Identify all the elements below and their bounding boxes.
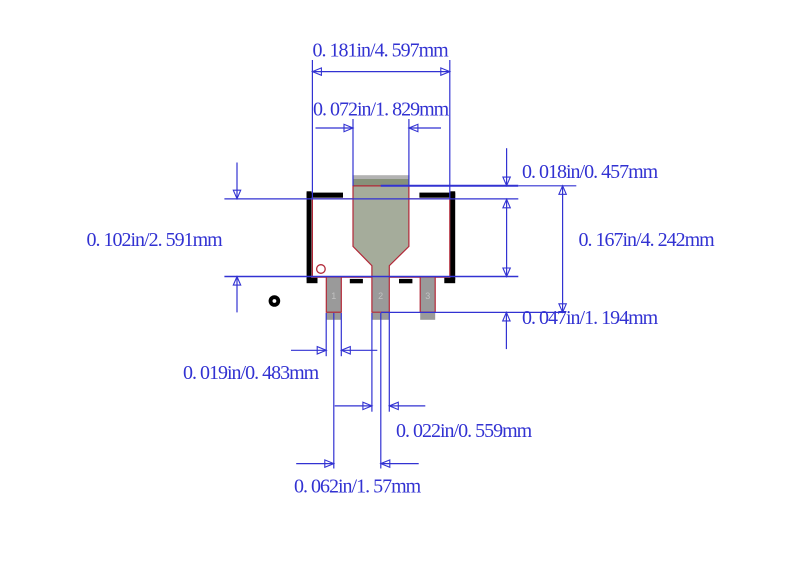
body bottom reference line: [224, 276, 518, 278]
package body outline: [312, 199, 449, 277]
silkscreen bottom dash 2: [399, 279, 412, 283]
dimension 0.018in: upper arrow stem: [503, 148, 510, 185]
dimension 0.167in stem with arrows: [559, 186, 566, 312]
silkscreen left vertical: [307, 191, 312, 279]
dimension 0.181in line with arrows: [312, 68, 449, 75]
tab top reference line: [381, 185, 577, 187]
pin 2 width extension lines: [372, 313, 389, 412]
dimension 0.181in text: [313, 40, 450, 62]
dimension 0.072in text: [313, 98, 450, 120]
tab / pin 2 red outline: [353, 186, 409, 312]
dimension 0.019in arrows: [291, 347, 377, 354]
pin 1 center extension line: [333, 313, 335, 469]
dimension 0.102in: lower arrow stem: [233, 277, 240, 313]
pin 2 number label: [378, 291, 383, 301]
pin 1 pad: [326, 277, 341, 320]
dimension 0.062in text: [294, 476, 422, 498]
svg-text:0. 102in/2. 591mm: 0. 102in/2. 591mm: [87, 229, 224, 251]
pin 1 number label: [331, 291, 336, 301]
svg-text:0. 018in/0. 457mm: 0. 018in/0. 457mm: [522, 161, 659, 183]
shared stem between body top and bottom (0.018 lower / 0.047 upper arrows): [503, 199, 510, 276]
pin 3 number label: [425, 291, 430, 301]
pin 2 center extension line: [380, 313, 382, 469]
svg-text:2: 2: [378, 291, 383, 301]
silkscreen bottom dash 1: [350, 279, 363, 283]
dimension 0.019in text: [183, 362, 320, 384]
svg-text:0. 019in/0. 483mm: 0. 019in/0. 483mm: [183, 362, 320, 384]
svg-text:1: 1: [331, 291, 336, 301]
dimension 0.018in text: [522, 161, 659, 183]
dimension 0.062in arrows: [296, 460, 419, 467]
dimension 0.102in: upper arrow stem: [233, 163, 240, 199]
pin bottom reference line: [381, 311, 566, 313]
silkscreen right vertical: [450, 191, 455, 279]
body top reference line: [224, 198, 518, 200]
pin 1 marker circle: [317, 265, 326, 274]
svg-text:0. 022in/0. 559mm: 0. 022in/0. 559mm: [396, 420, 533, 442]
silkscreen bottom-left stub: [307, 278, 318, 283]
dimension 0.072in arrows: [316, 124, 442, 131]
pin 1 width extension lines: [326, 313, 341, 356]
svg-text:0. 181in/4. 597mm: 0. 181in/4. 597mm: [313, 40, 450, 62]
svg-text:0. 072in/1. 829mm: 0. 072in/1. 829mm: [313, 98, 450, 120]
silkscreen top-right bar: [419, 193, 455, 198]
dimension 0.022in arrows: [335, 402, 426, 409]
pin 3 pad: [420, 277, 435, 320]
origin marker donut: [269, 295, 281, 307]
svg-text:0. 047in/1. 194mm: 0. 047in/1. 194mm: [522, 307, 659, 329]
dimension 0.181in overall width: extension lines: [312, 60, 449, 199]
dimension 0.167in text: [579, 229, 716, 251]
svg-text:0. 062in/1. 57mm: 0. 062in/1. 57mm: [294, 476, 422, 498]
tab pad (pin 2 heat tab): [352, 175, 409, 277]
dimension 0.102in text: [87, 229, 224, 251]
dimension 0.022in text: [396, 420, 533, 442]
svg-text:0. 167in/4. 242mm: 0. 167in/4. 242mm: [579, 229, 716, 251]
dimension 0.047in text: [522, 307, 659, 329]
silkscreen bottom-right stub: [444, 278, 455, 283]
svg-text:3: 3: [425, 291, 430, 301]
dimension 0.047in: lower arrow stem: [503, 312, 510, 349]
pin 1 red outline: [326, 277, 341, 312]
dimension 0.072in tab width: extension lines: [353, 119, 409, 186]
pin 3 red outline: [420, 277, 435, 312]
pin 2 pad: [372, 277, 389, 320]
silkscreen top-left bar: [307, 193, 343, 198]
